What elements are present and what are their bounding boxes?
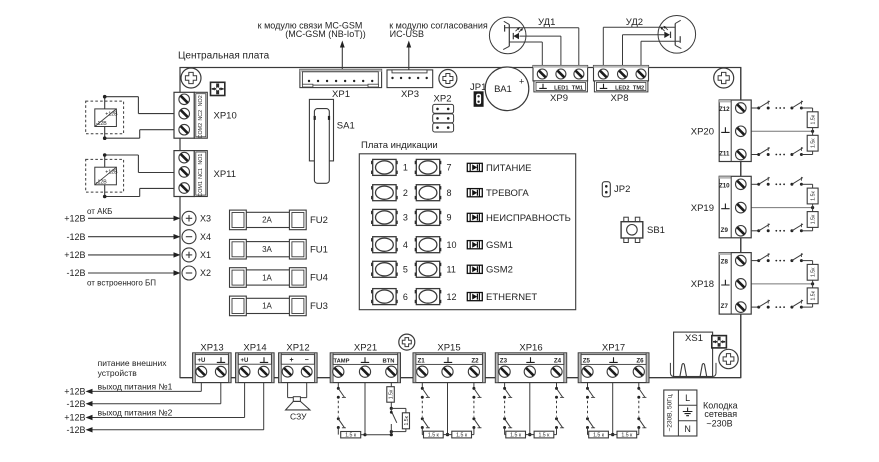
label -12В output	[66, 399, 85, 409]
terminal block ХР11	[174, 151, 236, 197]
zone loop switches right	[637, 382, 646, 434]
zone loop switches right	[555, 382, 564, 434]
svg-text:ХР2: ХР2	[434, 94, 452, 105]
svg-text:Z9: Z9	[721, 227, 729, 234]
svg-text:выход питания №2: выход питания №2	[98, 407, 173, 417]
central board outline	[180, 68, 741, 378]
svg-text:L: L	[685, 393, 690, 403]
wire input Х2	[88, 270, 181, 275]
svg-text:12: 12	[447, 292, 457, 302]
svg-text:-12В: -12В	[66, 425, 85, 435]
indicator button 9	[415, 209, 452, 225]
svg-text:+12В: +12В	[105, 170, 118, 176]
svg-text:1.5 к: 1.5 к	[621, 433, 633, 439]
svg-text:−: −	[305, 357, 309, 364]
indicator button 4	[371, 237, 408, 253]
svg-text:+: +	[519, 77, 524, 87]
svg-text:от АКБ: от АКБ	[87, 207, 112, 216]
svg-text:Х4: Х4	[200, 232, 211, 242]
terminal block XP15	[413, 342, 485, 382]
svg-text:НЕИСПРАВНОСТЬ: НЕИСПРАВНОСТЬ	[486, 213, 571, 224]
zone loop switches left	[586, 382, 595, 434]
arrow to IC-USB	[406, 41, 411, 70]
jumper block XP2	[433, 94, 454, 133]
zone common wire	[528, 382, 531, 436]
svg-text:1.5 к: 1.5 к	[345, 433, 357, 439]
indication board label Плата индикации	[361, 140, 438, 151]
wire relay load 1 vertical	[103, 95, 107, 140]
svg-text:-12В: -12В	[66, 268, 85, 278]
wire input Х1	[88, 252, 181, 257]
svg-text:~230В, 50Гц: ~230В, 50Гц	[667, 394, 674, 431]
svg-text:ХР14: ХР14	[243, 342, 266, 353]
svg-text:6: 6	[403, 292, 408, 302]
svg-text:-12В: -12В	[66, 232, 85, 242]
svg-text:Х3: Х3	[200, 214, 211, 224]
wire power output	[86, 383, 202, 395]
svg-text:Центральная плата: Центральная плата	[178, 51, 270, 62]
indicator button 11	[415, 261, 456, 277]
svg-text:Z8: Z8	[721, 259, 729, 266]
svg-text:~230В: ~230В	[706, 418, 732, 428]
terminal block ХР19	[691, 176, 751, 238]
svg-text:2: 2	[403, 188, 408, 198]
connector XP3	[387, 70, 433, 100]
label выход питания №1	[98, 381, 173, 391]
svg-text:ХР3: ХР3	[401, 89, 419, 100]
svg-text:ИС-USB: ИС-USB	[390, 29, 424, 39]
svg-text:СЗУ: СЗУ	[290, 411, 307, 421]
svg-text:Z3: Z3	[500, 357, 508, 364]
wire UD1 to XP9 TM1	[505, 28, 579, 66]
indicator button 10	[415, 237, 457, 253]
connector XP1	[300, 69, 382, 100]
terminal block XP8	[594, 66, 649, 105]
svg-text:5: 5	[403, 265, 408, 275]
LED ETHERNET	[467, 292, 537, 303]
svg-text:устройств: устройств	[98, 368, 138, 378]
indication board outline	[359, 154, 575, 310]
mains terminal block 230V	[664, 390, 697, 436]
svg-text:1.5 к: 1.5 к	[428, 433, 440, 439]
indicator button 8	[415, 185, 452, 201]
label +12В output	[64, 387, 85, 397]
terminal block XP12	[279, 342, 317, 382]
reader UD2	[658, 16, 696, 54]
svg-text:Z11: Z11	[719, 151, 730, 158]
resistor 1.5k BTN series	[387, 387, 395, 403]
wire input Х3	[88, 216, 181, 221]
svg-text:4: 4	[403, 240, 408, 250]
svg-text:ХР8: ХР8	[611, 93, 629, 104]
svg-text:+: +	[289, 357, 293, 364]
svg-text:9: 9	[447, 213, 452, 223]
LED GSM1	[467, 240, 513, 251]
svg-text:8: 8	[447, 188, 452, 198]
resistor 1.5k right	[448, 431, 474, 438]
board right edge wire	[740, 68, 742, 378]
terminal Х3	[182, 211, 211, 225]
tamper loop under XP21	[337, 382, 346, 434]
svg-text:LED2: LED2	[615, 85, 629, 91]
svg-text:+U: +U	[241, 358, 249, 364]
relay load 1 body +12V/-12V	[95, 109, 118, 127]
label -12В	[66, 232, 85, 242]
svg-text:3А: 3А	[262, 245, 272, 254]
label УД2	[626, 17, 643, 28]
svg-text:Z1: Z1	[418, 357, 426, 364]
svg-text:1.5к: 1.5к	[811, 114, 817, 124]
resistor 1.5k right	[530, 431, 557, 438]
svg-text:1.5к: 1.5к	[811, 191, 817, 201]
indicator button 12	[415, 289, 457, 305]
terminal Х2	[182, 266, 211, 280]
resistor 1.5k BTN parallel	[402, 413, 410, 429]
svg-text:NO1: NO1	[198, 154, 204, 165]
arrow to MC-GSM	[340, 41, 345, 70]
indicator button 6	[371, 289, 408, 305]
terminal block XP21	[330, 342, 400, 382]
svg-text:COM1: COM1	[198, 181, 204, 197]
terminal block ХР10	[174, 92, 237, 138]
svg-text:2А: 2А	[262, 216, 272, 225]
wire UD2 to XP8 TM2	[641, 41, 680, 65]
svg-text:N: N	[684, 424, 691, 434]
button parallel group	[390, 402, 406, 436]
resistor 1.5k right	[613, 431, 639, 438]
LED ТРЕВОГА	[467, 188, 529, 199]
svg-text:ХР12: ХР12	[286, 342, 309, 353]
resistor 1.5k ХР19 lower	[807, 212, 818, 228]
terminal block ХР20	[691, 100, 751, 162]
svg-text:1.5 к: 1.5 к	[538, 433, 550, 439]
svg-text:Х2: Х2	[200, 268, 211, 278]
relay load box 2 (dashed)	[86, 159, 124, 192]
mounting screw bottom-middle	[399, 334, 415, 350]
terminal block ХР18	[691, 253, 751, 315]
resistor 1.5k ХР20 lower	[807, 135, 818, 151]
resistor 1.5k ХР20 upper	[807, 112, 818, 128]
fuse FU1 3А	[230, 239, 328, 259]
svg-text:1А: 1А	[262, 273, 272, 282]
svg-text:ПИТАНИЕ: ПИТАНИЕ	[486, 163, 532, 174]
svg-text:BTN: BTN	[383, 358, 395, 364]
svg-text:выход питания №1: выход питания №1	[98, 381, 173, 391]
zone loop wires ХР18 bottom	[751, 300, 812, 309]
label от АКБ	[87, 207, 112, 216]
board title Центральная плата	[178, 51, 270, 62]
svg-text:NO2: NO2	[198, 95, 204, 106]
indicator button 7	[415, 159, 452, 175]
wire relay load 1 bottom	[105, 130, 176, 139]
svg-text:Z5: Z5	[583, 357, 591, 364]
svg-text:TM1: TM1	[572, 85, 583, 91]
resistor 1.5k left	[422, 431, 447, 438]
zone loop wires ХР18 top	[751, 253, 812, 264]
svg-text:SA1: SA1	[337, 121, 355, 132]
svg-text:GSM1: GSM1	[486, 240, 513, 251]
resistor 1.5k ХР18 lower	[807, 288, 818, 304]
relay load 2 body +12V/-12V	[95, 167, 118, 185]
svg-text:ТРЕВОГА: ТРЕВОГА	[486, 188, 529, 199]
svg-text:LED1: LED1	[554, 85, 568, 91]
svg-text:-12В: -12В	[96, 121, 107, 127]
label Колодка сетевая ~230В	[703, 400, 738, 428]
svg-text:1.5к: 1.5к	[389, 389, 395, 399]
siren SZU wires	[288, 383, 307, 398]
zone loop wires ХР20 top	[751, 101, 812, 112]
button BTN chain	[390, 382, 392, 386]
svg-text:1.5к: 1.5к	[811, 138, 817, 148]
terminal block XP17	[578, 342, 649, 382]
svg-text:NC1: NC1	[198, 168, 204, 179]
LED ПИТАНИЕ	[467, 163, 531, 174]
svg-text:Z7: Z7	[721, 303, 729, 310]
terminal Х1	[182, 248, 211, 262]
wire power output	[86, 383, 245, 421]
indicator button 2	[371, 185, 408, 201]
svg-text:ХР13: ХР13	[200, 342, 223, 353]
svg-text:ХР21: ХР21	[354, 342, 377, 353]
svg-text:NC2: NC2	[198, 110, 204, 121]
svg-text:(МС-GSM (NB-IoT)): (МС-GSM (NB-IoT))	[285, 29, 366, 39]
svg-text:1.5к: 1.5к	[811, 290, 817, 300]
annotation to MC-GSM module	[258, 21, 366, 40]
resistor 1.5k tamper	[341, 432, 361, 439]
svg-text:ХР19: ХР19	[691, 203, 714, 214]
zone loop wires ХР19 top	[751, 177, 812, 188]
svg-text:3: 3	[403, 213, 408, 223]
svg-text:7: 7	[447, 163, 452, 173]
label +12В output	[64, 413, 85, 423]
label +12В	[64, 214, 85, 224]
resistor 1.5k ХР19 upper	[807, 188, 818, 204]
terminal Х4	[182, 230, 211, 244]
relay load box 1 (dashed)	[86, 101, 124, 134]
terminal block XP16	[495, 342, 566, 382]
svg-text:Z4: Z4	[554, 357, 562, 364]
svg-text:ХР18: ХР18	[691, 279, 714, 290]
siren SZU symbol	[286, 397, 310, 422]
zone loop ХР18 middle wire	[751, 280, 814, 288]
svg-text:JP2: JP2	[614, 184, 630, 195]
cross pad near XS1	[712, 336, 727, 348]
indicator button 5	[371, 261, 408, 277]
terminal block XP13	[193, 342, 231, 382]
reader UD1	[489, 17, 526, 54]
tamper common wire	[361, 382, 392, 436]
fuse FU2 2А	[230, 210, 328, 230]
wire UD1 to XP9 common	[509, 42, 542, 66]
svg-text:1.5 к: 1.5 к	[456, 433, 468, 439]
label УД1	[538, 17, 555, 28]
svg-text:10: 10	[447, 240, 457, 250]
svg-text:FU2: FU2	[310, 215, 328, 226]
label +12В	[64, 250, 85, 260]
wire power output	[86, 383, 221, 407]
label выход питания №2	[98, 407, 173, 417]
svg-text:Z12: Z12	[719, 106, 730, 113]
LED GSM2	[467, 265, 513, 276]
svg-text:ХР1: ХР1	[332, 89, 350, 100]
svg-text:FU4: FU4	[310, 273, 328, 284]
svg-text:FU1: FU1	[310, 244, 328, 255]
label -12В	[66, 268, 85, 278]
svg-text:1.5к: 1.5к	[811, 214, 817, 224]
svg-text:11: 11	[447, 265, 456, 275]
annotation to IC-USB module	[389, 21, 488, 40]
LED НЕИСПРАВНОСТЬ	[467, 213, 571, 224]
board bottom edge wire	[180, 377, 741, 379]
tamper switch SA1	[309, 99, 354, 183]
svg-text:1.5 к: 1.5 к	[510, 433, 522, 439]
zone common wire	[611, 382, 614, 436]
svg-text:+12В: +12В	[64, 250, 85, 260]
svg-text:COM2: COM2	[198, 123, 204, 139]
zone loop switches left	[421, 382, 430, 434]
svg-text:+12В: +12В	[64, 413, 85, 423]
svg-text:XS1: XS1	[685, 333, 703, 344]
svg-text:Z10: Z10	[719, 182, 730, 189]
svg-text:1А: 1А	[262, 302, 272, 311]
resistor 1.5k ХР18 upper	[807, 264, 818, 280]
svg-text:Z2: Z2	[471, 357, 479, 364]
terminal block XP9	[533, 66, 588, 105]
svg-text:GSM2: GSM2	[486, 265, 513, 276]
svg-text:ХР11: ХР11	[214, 169, 237, 180]
svg-text:ХР15: ХР15	[437, 342, 460, 353]
svg-text:от встроенного БП: от встроенного БП	[87, 279, 156, 288]
svg-text:Х1: Х1	[200, 250, 211, 260]
svg-text:ХР9: ХР9	[550, 93, 568, 104]
svg-text:+12В: +12В	[64, 214, 85, 224]
button SB1	[621, 217, 665, 242]
zone loop switches left	[503, 382, 512, 434]
zone loop ХР19 middle wire	[751, 204, 814, 212]
indicator button 1	[371, 159, 408, 175]
wire relay load 1 top	[105, 97, 176, 114]
fuse FU3 1А	[230, 296, 328, 316]
svg-text:+12В: +12В	[105, 111, 118, 117]
resistor 1.5k left	[588, 431, 613, 438]
jumper JP1	[470, 82, 486, 107]
svg-text:ХР17: ХР17	[602, 342, 625, 353]
zone common wire	[446, 382, 449, 436]
svg-text:1.5к: 1.5к	[811, 267, 817, 277]
svg-text:ХР16: ХР16	[519, 342, 542, 353]
label -12В output	[66, 425, 85, 435]
svg-text:ХР20: ХР20	[691, 127, 714, 138]
svg-text:УД1: УД1	[538, 17, 555, 28]
svg-text:ХР10: ХР10	[214, 111, 237, 122]
wire input Х4	[88, 234, 181, 239]
mounting screw top-left	[181, 68, 201, 88]
svg-text:TAMP: TAMP	[334, 358, 350, 364]
svg-text:1.5 к: 1.5 к	[593, 433, 605, 439]
mains connector XS1	[670, 332, 716, 376]
zone loop ХР20 middle wire	[751, 128, 814, 136]
svg-text:Плата индикации: Плата индикации	[361, 140, 438, 151]
svg-text:FU3: FU3	[310, 301, 328, 312]
svg-text:ВА1: ВА1	[494, 84, 512, 95]
terminal block XP14	[236, 342, 274, 382]
wire relay load 2 top	[105, 155, 176, 173]
wire power output	[86, 383, 264, 433]
svg-text:Z6: Z6	[636, 357, 644, 364]
indicator button 3	[371, 209, 408, 225]
svg-text:+U: +U	[198, 358, 206, 364]
wire UD2 to XP8 common	[603, 27, 675, 65]
zone loop switches right	[472, 382, 481, 434]
svg-text:-12В: -12В	[66, 399, 85, 409]
resistor 1.5k left	[505, 431, 530, 438]
mounting screw top-middle	[439, 70, 457, 88]
wire relay load 2 bottom	[105, 188, 176, 196]
wire relay load 2 vertical	[103, 153, 107, 198]
zone loop wires ХР19 bottom	[751, 223, 812, 232]
svg-text:1: 1	[403, 163, 408, 173]
svg-text:TM2: TM2	[633, 85, 644, 91]
svg-text:питание внешних: питание внешних	[98, 358, 168, 368]
mounting screw top-right	[714, 68, 734, 88]
mounting screw bottom-right	[719, 349, 738, 368]
zone loop wires ХР20 bottom	[751, 147, 812, 156]
jumper JP2	[602, 182, 630, 197]
label от встроенного БП	[87, 279, 156, 288]
cross pad near XP10	[211, 82, 225, 95]
svg-text:+12В: +12В	[64, 387, 85, 397]
svg-text:ETHERNET: ETHERNET	[486, 292, 537, 303]
fuse FU4 1А	[230, 268, 328, 288]
wire UD1 to XP9 LED1	[520, 36, 561, 65]
wire UD2 to XP8 LED2	[623, 35, 665, 66]
sounder BA1	[485, 67, 529, 111]
svg-text:1.5к: 1.5к	[404, 415, 410, 425]
svg-text:-12В: -12В	[96, 180, 107, 186]
label питание внешних устройств	[98, 358, 168, 378]
svg-text:SB1: SB1	[647, 225, 665, 236]
svg-text:УД2: УД2	[626, 17, 643, 28]
